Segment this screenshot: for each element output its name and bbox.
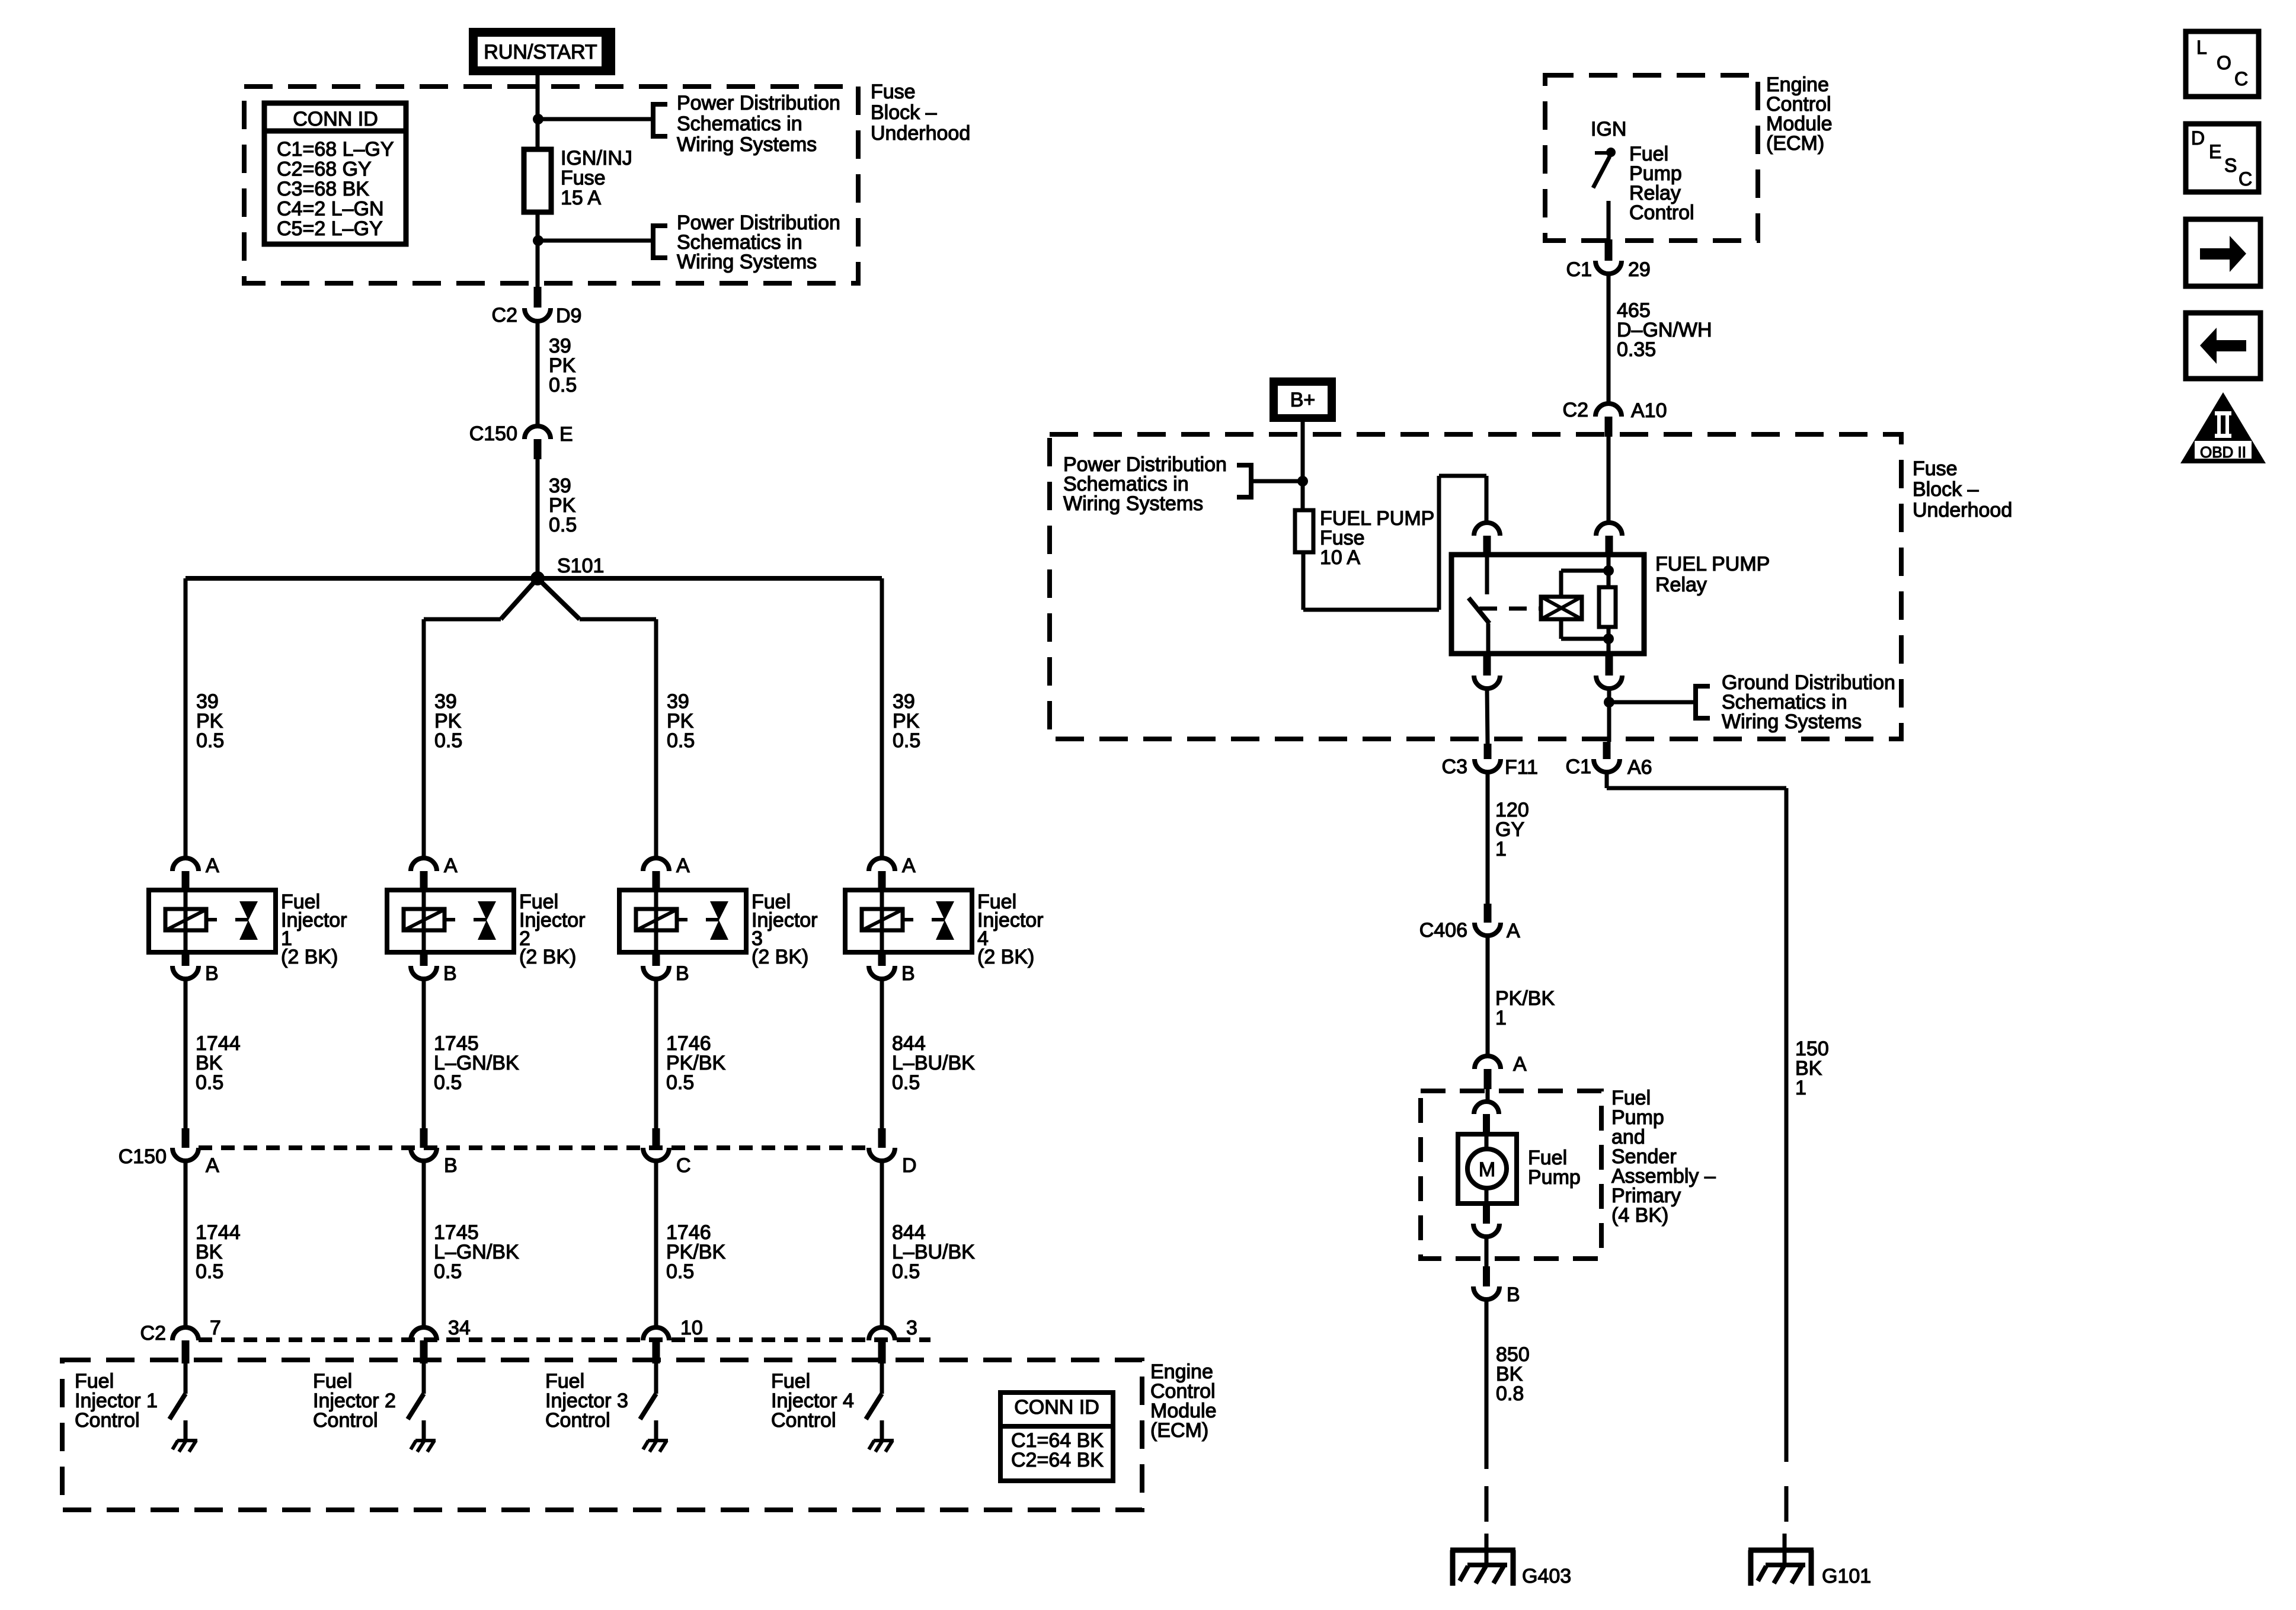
connector ECM C2 pin 3	[869, 1327, 895, 1340]
wire relay output to C3 F11	[1487, 689, 1488, 744]
wire 465 D-GN/WH 0.35 from ECM C1 29 to fuse block C2 A10	[1607, 274, 1611, 404]
svg-text:C3=68 BK: C3=68 BK	[277, 178, 369, 200]
svg-text:M: M	[1479, 1158, 1495, 1181]
svg-text:C: C	[2239, 168, 2252, 190]
connector fuse block C3 pin F11	[1484, 744, 1492, 759]
ECM driver switch for injector 1	[184, 1363, 188, 1394]
svg-text:C2=68 GY: C2=68 GY	[277, 158, 372, 181]
relay terminal connector (coil input)	[1596, 523, 1622, 536]
relay actuation link (dashed)	[1479, 607, 1541, 611]
off-page reference bracket (top)	[653, 104, 667, 136]
svg-text:(ECM): (ECM)	[1150, 1419, 1208, 1442]
wire relay coil ground to C1 A6	[1607, 689, 1611, 742]
svg-text:15 A: 15 A	[561, 187, 601, 209]
fuel injector 2 link to valve	[445, 918, 455, 921]
svg-text:Power Distribution: Power Distribution	[677, 92, 840, 114]
relay output terminal (to fuel pump)	[1483, 654, 1491, 676]
svg-text:S: S	[2224, 155, 2237, 176]
svg-text:D: D	[2191, 127, 2205, 149]
svg-text:C2=64 BK: C2=64 BK	[1011, 1449, 1104, 1471]
svg-text:Control: Control	[75, 1409, 140, 1432]
svg-text:Wiring Systems: Wiring Systems	[1063, 492, 1203, 515]
wire 39 PK 0.5 branch to fuel injector 3	[654, 619, 658, 858]
wire 1746 from injector 3 to C150	[654, 979, 658, 1128]
icon DESC box	[2186, 124, 2259, 192]
svg-text:Control: Control	[771, 1409, 836, 1432]
splice S101	[530, 571, 545, 585]
svg-text:C150: C150	[119, 1145, 167, 1168]
svg-text:B+: B+	[1290, 389, 1316, 411]
svg-text:FUEL PUMP: FUEL PUMP	[1655, 553, 1770, 575]
fuse F IGN/INJ 15 A	[524, 149, 551, 212]
svg-text:G403: G403	[1522, 1565, 1571, 1587]
svg-text:C406: C406	[1419, 919, 1467, 942]
svg-text:A: A	[444, 854, 458, 877]
connector pin B of fuel injector 1	[182, 952, 190, 966]
svg-text:Fuse: Fuse	[871, 81, 916, 103]
ECM connector row C2 dashed line	[199, 1337, 930, 1342]
svg-text:C: C	[676, 1154, 691, 1177]
svg-text:Relay: Relay	[1655, 574, 1707, 596]
connector ECM C1 pin 29	[1605, 239, 1613, 261]
junction node above IGN/INJ fuse	[533, 114, 543, 124]
svg-text:Control: Control	[545, 1409, 610, 1432]
wire 150 BK 1 from C1 A6 to G101	[1605, 772, 1609, 788]
wire 1745 from C150 to ECM C2 pin 34	[422, 1161, 426, 1327]
svg-text:D: D	[902, 1154, 917, 1177]
connector C406 pin A	[1484, 904, 1492, 923]
svg-text:C1: C1	[1566, 258, 1592, 281]
svg-text:C150: C150	[469, 422, 517, 445]
connector C150 pin C	[653, 1128, 660, 1148]
svg-text:Schematics in: Schematics in	[677, 113, 802, 135]
fuel injector 1 link to valve	[206, 918, 217, 921]
power tag RUN/START	[469, 28, 615, 75]
fuel injector 3 link to valve	[677, 918, 687, 921]
svg-text:10 A: 10 A	[1320, 546, 1360, 569]
svg-text:0.5: 0.5	[434, 1071, 462, 1094]
svg-text:Wiring Systems: Wiring Systems	[677, 251, 817, 273]
fuse block underhood (left) dashed box	[244, 87, 858, 283]
wire 1746 from C150 to ECM C2 pin 10	[654, 1161, 658, 1327]
svg-text:34: 34	[448, 1317, 471, 1339]
fuel injector 2 valve	[478, 901, 496, 920]
wire continuation dash to G101	[1785, 1486, 1789, 1522]
icon OBD II triangle	[2180, 392, 2266, 463]
connector pin A of fuel injector 4	[869, 858, 895, 871]
wire 120 GY 1 from C3 F11 to C406	[1486, 772, 1490, 904]
svg-text:7: 7	[210, 1317, 221, 1339]
ground G101	[1748, 1548, 1814, 1553]
fuel injector 4 link to valve	[903, 918, 913, 921]
svg-text:S101: S101	[557, 555, 604, 577]
svg-text:1: 1	[1495, 1007, 1507, 1029]
wire continuation dash to G403	[1485, 1486, 1489, 1522]
svg-text:Control: Control	[1629, 201, 1694, 224]
connector ECM C2 pin 7	[172, 1327, 199, 1340]
svg-text:0.5: 0.5	[196, 1260, 223, 1283]
connector pin A of fuel injector 1	[172, 858, 199, 871]
svg-text:0.5: 0.5	[549, 374, 577, 396]
svg-text:Control: Control	[313, 1409, 378, 1432]
svg-text:Block –: Block –	[1913, 478, 1979, 501]
connector ECM C2 pin 10	[643, 1327, 669, 1340]
wire 39 PK 0.5 branch to fuel injector 4	[880, 578, 884, 858]
connector fuel pump assembly pin B	[1483, 1266, 1490, 1286]
svg-text:Block –: Block –	[871, 101, 937, 124]
icon LOC box	[2186, 31, 2259, 97]
svg-text:1: 1	[1795, 1077, 1806, 1099]
svg-text:Fuse: Fuse	[561, 167, 606, 190]
off-page reference bracket (B+ feed)	[1237, 465, 1251, 497]
wire 850 BK 0.8 from pin B to G403	[1485, 1299, 1489, 1469]
svg-text:IGN: IGN	[1591, 118, 1626, 140]
connector ID table (fuse block underhood)	[264, 103, 406, 244]
svg-text:B: B	[1507, 1283, 1520, 1306]
svg-text:C1: C1	[1566, 756, 1591, 778]
fuel injector 2 body	[387, 890, 514, 952]
wire 844 from injector 4 to C150	[880, 979, 884, 1128]
harness connector row C150 dashed line	[199, 1145, 869, 1150]
svg-text:10: 10	[680, 1317, 703, 1339]
ECM fuel pump relay control driver switch	[1595, 151, 1607, 155]
ECM internal ground (injector 3 driver)	[648, 1439, 668, 1442]
svg-text:C2: C2	[140, 1322, 166, 1345]
connector fuse block C1 pin A6	[1603, 742, 1611, 759]
connector fuel pump assembly pin A (harness side)	[1475, 1056, 1501, 1069]
fuel injector 1 body	[149, 890, 276, 952]
relay suppression resistor	[1607, 555, 1611, 587]
fuel injector 4 solenoid coil	[862, 909, 903, 930]
svg-text:C2: C2	[1563, 399, 1588, 421]
power tag B+	[1269, 377, 1336, 422]
fuel injector 1 valve	[239, 901, 258, 920]
svg-text:CONN ID: CONN ID	[293, 108, 378, 130]
svg-text:Pump: Pump	[1528, 1166, 1581, 1189]
connector pin A of fuel injector 3	[643, 858, 669, 871]
svg-text:0.35: 0.35	[1617, 338, 1656, 361]
svg-text:F11: F11	[1505, 756, 1538, 779]
svg-text:0.5: 0.5	[434, 729, 462, 752]
connector pin A of fuel injector 2	[411, 858, 437, 871]
svg-text:1: 1	[1495, 838, 1507, 860]
svg-text:(2 BK): (2 BK)	[281, 946, 338, 968]
svg-text:A6: A6	[1627, 756, 1652, 779]
ECM driver switch for injector 3	[654, 1363, 658, 1394]
wire 39 PK 0.5 branch to fuel injector 1	[184, 578, 188, 858]
fuel injector 3 body	[619, 890, 746, 952]
svg-text:C: C	[2234, 68, 2248, 89]
svg-text:3: 3	[906, 1317, 917, 1339]
fuel injector 1 solenoid coil	[165, 909, 206, 930]
svg-text:C5=2 L–GY: C5=2 L–GY	[277, 217, 383, 240]
off-page reference bracket (lower)	[653, 226, 667, 258]
svg-text:C3: C3	[1442, 756, 1467, 778]
relay coil	[1541, 597, 1582, 619]
wire 1744 from injector 1 to C150	[184, 979, 188, 1128]
wire 39 PK 0.5 from C2 D9 to C150 E	[536, 321, 540, 426]
engine control module (ECM) dashed box (bottom)	[62, 1360, 1142, 1510]
fuel injector 3 valve	[710, 901, 728, 920]
wire B+ feed to FUEL PUMP fuse	[1301, 422, 1305, 510]
connector C150 pin E	[525, 426, 551, 439]
wire 1745 from injector 2 to C150	[422, 979, 426, 1128]
svg-text:G101: G101	[1822, 1565, 1871, 1587]
connector C2 pin D9 (fuse block underhood)	[534, 287, 542, 308]
branch wire S101 to injector 2 drop	[501, 578, 538, 619]
svg-text:0.5: 0.5	[667, 729, 695, 752]
svg-text:(ECM): (ECM)	[1766, 132, 1824, 155]
fuel injector 2 solenoid coil	[404, 909, 445, 930]
wire PK/BK 1 from C406 to fuel pump assembly pin A	[1486, 936, 1490, 1056]
ECM driver switch for injector 2	[422, 1363, 426, 1394]
svg-text:C4=2 L–GN: C4=2 L–GN	[277, 198, 384, 220]
svg-text:(2 BK): (2 BK)	[977, 946, 1034, 968]
svg-text:0.8: 0.8	[1496, 1382, 1524, 1405]
svg-text:E: E	[2209, 141, 2221, 162]
svg-text:B: B	[205, 962, 219, 985]
wire branch to power distribution reference (B+)	[1252, 479, 1303, 484]
wire branch to power distribution reference (top)	[538, 117, 652, 121]
branch wire S101 to injector 3 drop	[538, 578, 580, 619]
fuel injector 4 body	[845, 890, 972, 952]
icon forward arrow box	[2186, 219, 2260, 286]
junction node below IGN/INJ fuse	[533, 235, 543, 246]
svg-text:0.5: 0.5	[434, 1260, 462, 1283]
svg-text:A: A	[902, 854, 916, 877]
fuse block underhood (right) dashed box	[1050, 434, 1901, 739]
icon back arrow box	[2186, 313, 2260, 379]
fuse FUEL PUMP 10 A	[1295, 510, 1313, 552]
svg-text:B: B	[444, 1154, 458, 1177]
svg-text:Fuse: Fuse	[1913, 457, 1958, 480]
engine control module (ECM) dashed box (top right)	[1545, 75, 1758, 241]
wire C2 A10 into fuel pump relay coil	[1607, 437, 1611, 523]
svg-text:0.5: 0.5	[196, 1071, 223, 1094]
ground G403	[1450, 1548, 1515, 1553]
svg-text:C1=68 L–GY: C1=68 L–GY	[277, 138, 394, 161]
svg-text:(2 BK): (2 BK)	[752, 946, 808, 968]
svg-text:OBD II: OBD II	[2200, 443, 2246, 461]
svg-text:A: A	[206, 854, 219, 877]
svg-text:A: A	[1513, 1053, 1527, 1076]
wire 39 PK 0.5 branch to fuel injector 2	[422, 619, 426, 858]
FUEL PUMP relay box	[1451, 555, 1644, 654]
relay terminal connector (switch input)	[1474, 523, 1500, 536]
connector pin B of fuel injector 4	[878, 952, 886, 966]
svg-text:CONN ID: CONN ID	[1014, 1396, 1099, 1419]
svg-text:L: L	[2196, 37, 2207, 58]
svg-text:0.5: 0.5	[196, 729, 224, 752]
junction node at B+ feed	[1297, 476, 1308, 486]
wire 39 PK 0.5 from C150 E to splice S101	[536, 459, 540, 578]
svg-text:29: 29	[1628, 258, 1651, 281]
connector C150 pin B	[420, 1128, 428, 1148]
fuel pump internal connector (bottom)	[1483, 1204, 1490, 1224]
svg-text:RUN/START: RUN/START	[484, 41, 597, 63]
svg-text:A: A	[676, 854, 690, 877]
wire 844 from C150 to ECM C2 pin 3	[880, 1161, 884, 1327]
wire 1744 from C150 to ECM C2 pin 7	[184, 1161, 188, 1327]
off-page reference bracket (ground distribution)	[1696, 686, 1710, 718]
svg-text:Underhood: Underhood	[871, 122, 970, 145]
junction node to ground distribution reference	[1604, 697, 1614, 708]
ECM driver switch for injector 4	[880, 1363, 884, 1394]
fuel pump and sender assembly dashed box	[1421, 1091, 1601, 1259]
svg-text:0.5: 0.5	[666, 1071, 694, 1094]
svg-text:0.5: 0.5	[892, 1071, 920, 1094]
svg-text:Wiring Systems: Wiring Systems	[1722, 710, 1862, 733]
wire RUN/START feed into fuse block	[536, 75, 540, 149]
wire FUEL PUMP fuse to relay switch input	[1302, 552, 1306, 610]
svg-text:O: O	[2217, 52, 2231, 73]
wire IGN/INJ fuse to C2 D9	[536, 212, 540, 287]
connector C150 pin A	[182, 1128, 190, 1148]
svg-text:A: A	[206, 1154, 219, 1177]
svg-text:D9: D9	[556, 305, 581, 327]
connector pin B of fuel injector 2	[420, 952, 428, 966]
ECM internal ground (injector 4 driver)	[874, 1439, 894, 1442]
ECM internal ground (injector 2 driver)	[415, 1439, 436, 1442]
svg-text:(4 BK): (4 BK)	[1611, 1204, 1668, 1227]
svg-text:B: B	[443, 962, 457, 985]
svg-text:C2: C2	[492, 304, 517, 327]
connector C150 pin D	[878, 1128, 886, 1148]
svg-text:0.5: 0.5	[666, 1260, 694, 1283]
ECM internal ground (injector 1 driver)	[177, 1439, 197, 1442]
connector fuse block C2 pin A10	[1595, 404, 1622, 417]
svg-text:IGN/INJ: IGN/INJ	[561, 147, 632, 169]
relay coil ground terminal	[1606, 654, 1613, 676]
connector ECM C2 pin 34	[411, 1327, 437, 1340]
svg-text:A: A	[1507, 920, 1520, 942]
bus wire from S101 to injector 1 and injector 4 branches	[186, 576, 882, 581]
svg-text:E: E	[559, 423, 573, 446]
svg-text:0.5: 0.5	[892, 1260, 920, 1283]
svg-text:0.5: 0.5	[549, 514, 577, 536]
fuel pump internal connector pin A	[1474, 1102, 1499, 1114]
svg-text:Underhood: Underhood	[1913, 499, 2012, 521]
svg-text:0.5: 0.5	[893, 729, 920, 752]
fuel injector 3 solenoid coil	[636, 909, 677, 930]
relay switch contact	[1485, 555, 1489, 594]
svg-text:B: B	[676, 962, 689, 985]
fuel injector 4 valve	[936, 901, 954, 920]
svg-text:A10: A10	[1631, 399, 1667, 422]
svg-text:B: B	[901, 962, 915, 985]
relay coil wiring to supply	[1559, 571, 1563, 597]
connector pin B of fuel injector 3	[653, 952, 660, 966]
svg-text:(2 BK): (2 BK)	[519, 946, 576, 968]
wire branch to power distribution reference (lower)	[538, 239, 652, 243]
fuel pump motor M1	[1458, 1134, 1517, 1204]
svg-text:Wiring Systems: Wiring Systems	[677, 133, 817, 156]
connector ID table (ECM bottom)	[1000, 1393, 1113, 1481]
